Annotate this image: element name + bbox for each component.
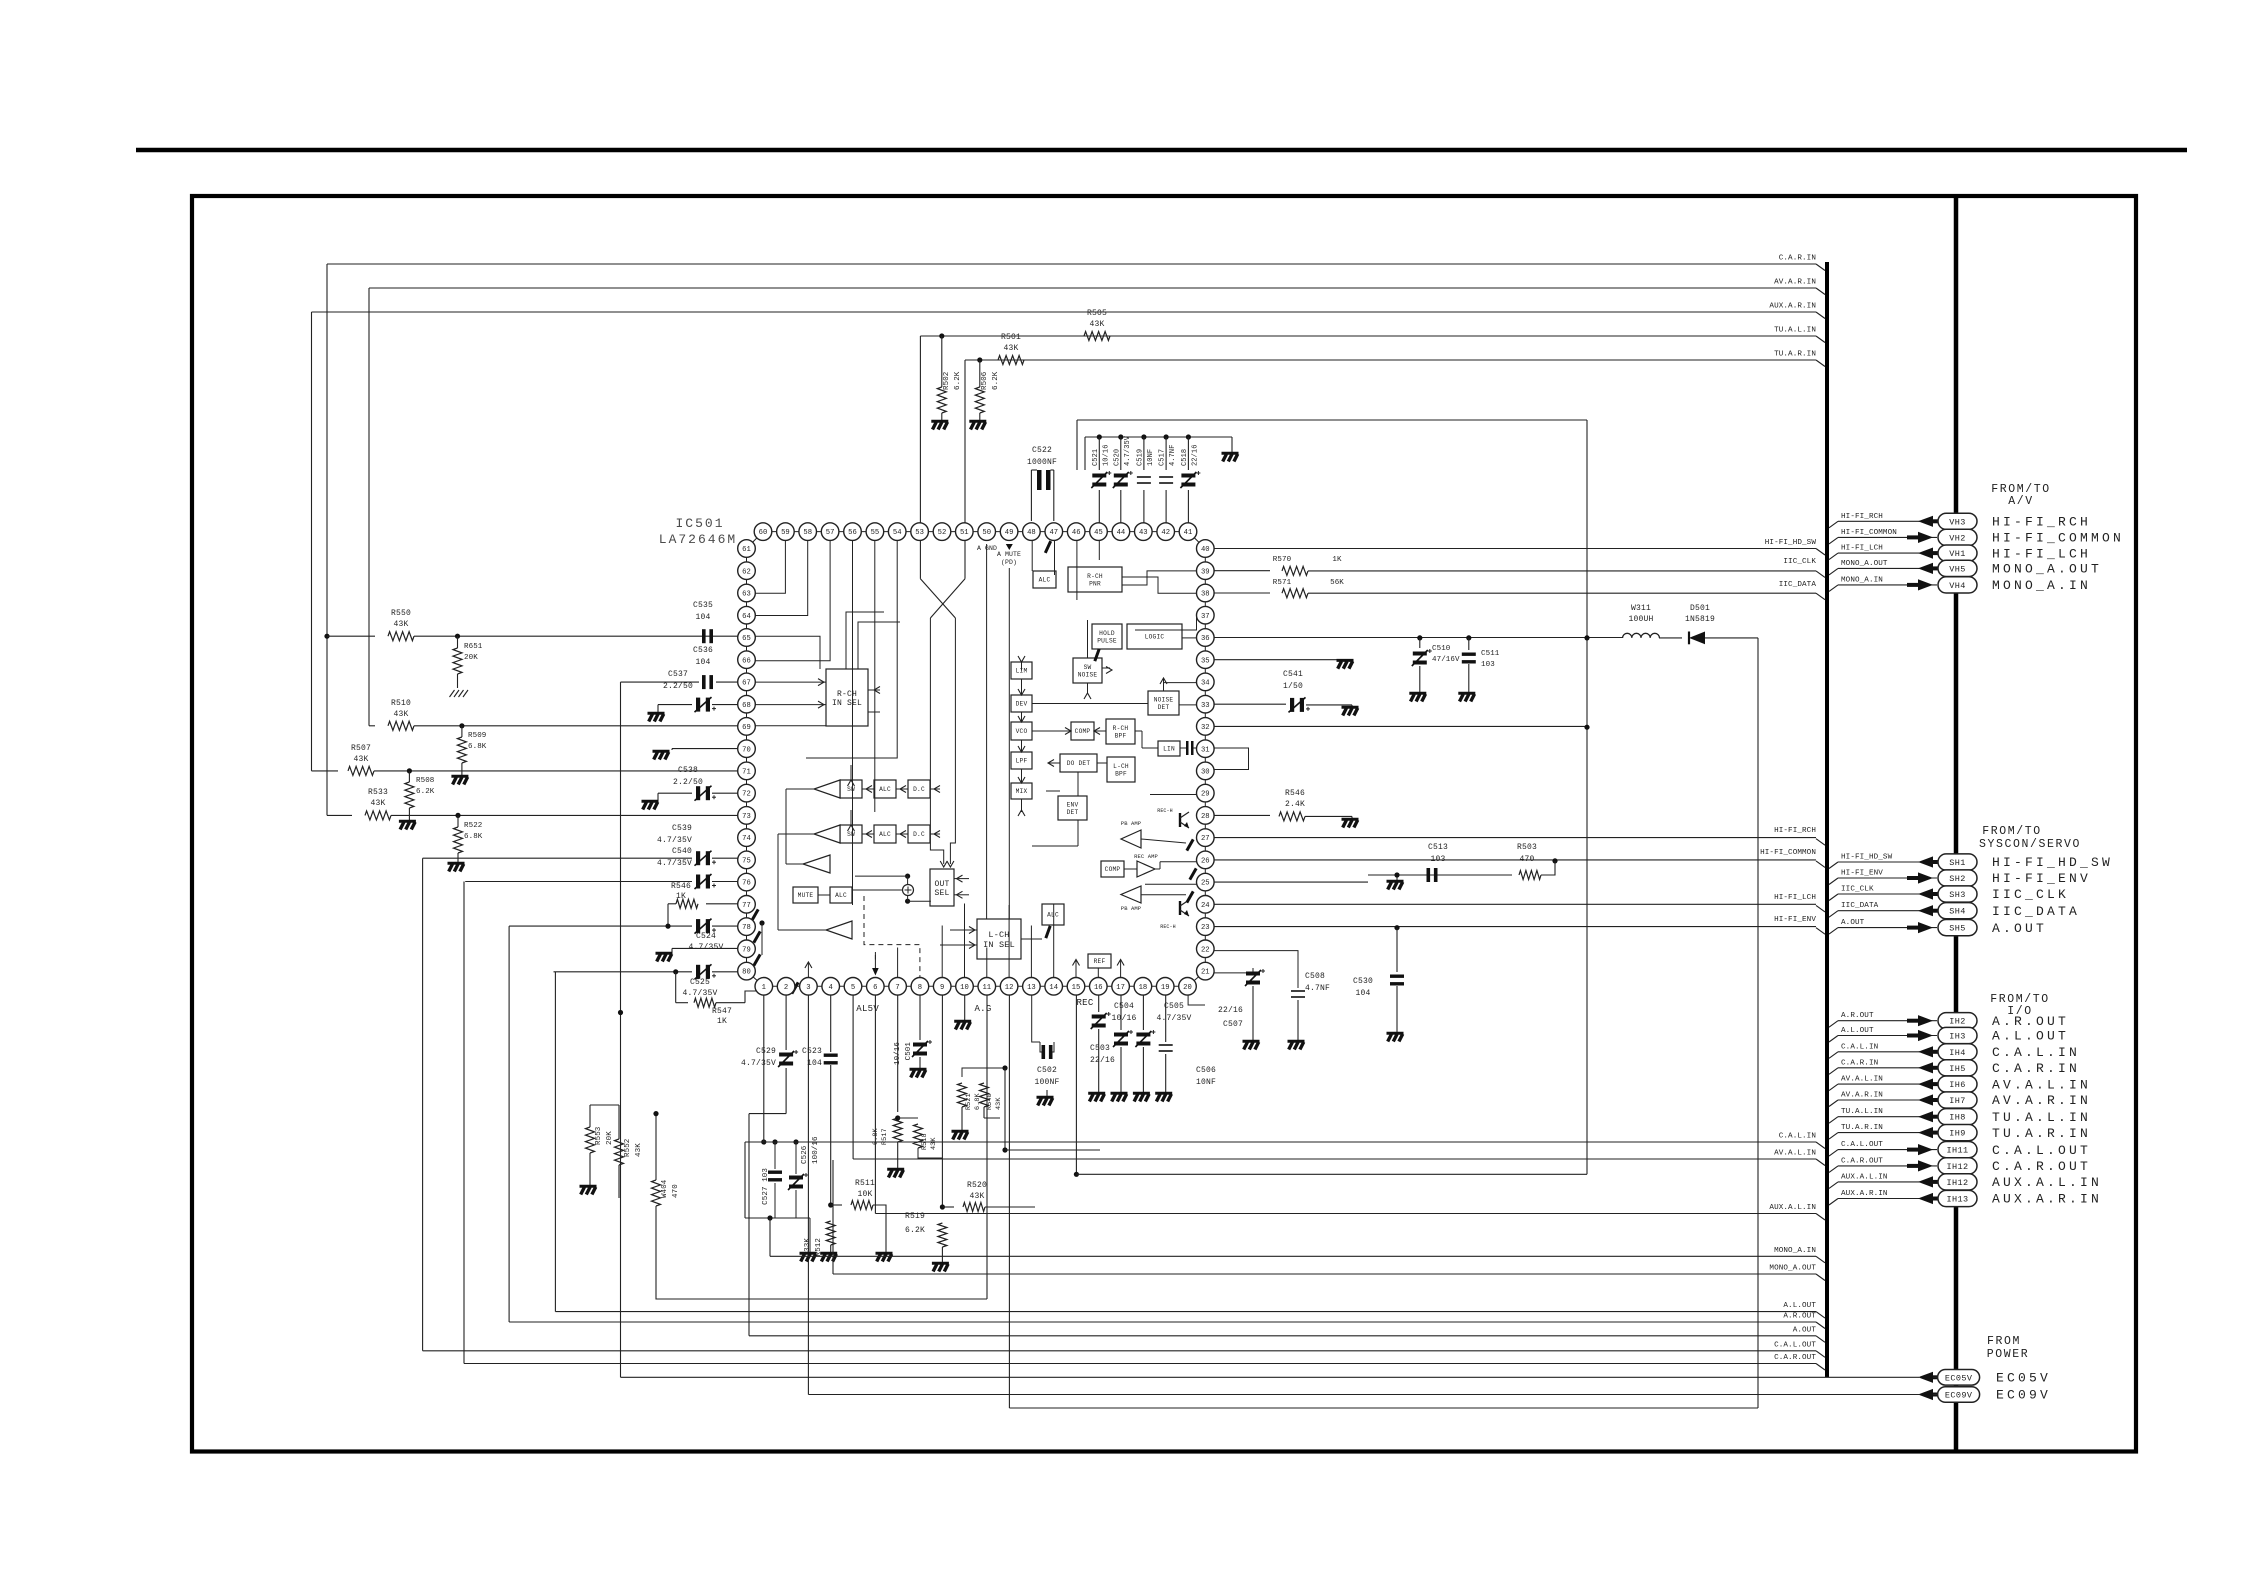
svg-text:20K: 20K xyxy=(464,654,478,662)
svg-text:2.2/50: 2.2/50 xyxy=(663,682,693,691)
svg-text:SYSCON/SERVO: SYSCON/SERVO xyxy=(1979,838,2081,851)
svg-text:R570: R570 xyxy=(1273,556,1292,564)
svg-text:C.A.R.IN: C.A.R.IN xyxy=(1779,255,1816,263)
svg-text:4.7/35V: 4.7/35V xyxy=(688,943,723,952)
svg-text:C.A.R.OUT: C.A.R.OUT xyxy=(1841,1157,1883,1165)
svg-text:44: 44 xyxy=(1117,529,1126,537)
svg-text:6.2K: 6.2K xyxy=(954,371,962,390)
svg-text:C507: C507 xyxy=(1223,1020,1243,1029)
svg-text:49: 49 xyxy=(1005,529,1014,537)
svg-text:R-CH: R-CH xyxy=(1087,573,1103,580)
svg-text:28: 28 xyxy=(1201,813,1210,821)
svg-text:C510: C510 xyxy=(1432,645,1451,653)
svg-text:30: 30 xyxy=(1201,769,1210,777)
svg-text:REF: REF xyxy=(1094,958,1106,965)
svg-text:MONO_A.IN: MONO_A.IN xyxy=(1841,576,1883,584)
svg-text:IC501: IC501 xyxy=(675,516,724,531)
svg-text:22/16: 22/16 xyxy=(1218,1006,1243,1015)
svg-text:13: 13 xyxy=(1027,984,1036,992)
svg-text:22/16: 22/16 xyxy=(1191,444,1199,466)
svg-text:VH2: VH2 xyxy=(1949,533,1966,543)
svg-text:2.4K: 2.4K xyxy=(1285,800,1305,809)
svg-text:A MUTE: A MUTE xyxy=(997,551,1021,558)
svg-text:R522: R522 xyxy=(464,822,482,830)
svg-text:R552: R552 xyxy=(624,1139,632,1157)
svg-text:37: 37 xyxy=(1201,613,1210,621)
svg-text:R651: R651 xyxy=(464,643,483,651)
svg-text:C502: C502 xyxy=(1037,1066,1057,1075)
svg-text:R509: R509 xyxy=(468,732,486,740)
svg-text:43K: 43K xyxy=(635,1143,643,1157)
svg-text:HI-FI_LCH: HI-FI_LCH xyxy=(1841,545,1883,553)
svg-text:A.L.OUT: A.L.OUT xyxy=(1992,1029,2069,1044)
svg-text:40: 40 xyxy=(1201,546,1210,554)
svg-text:57: 57 xyxy=(826,529,835,537)
svg-text:TU.A.R.IN: TU.A.R.IN xyxy=(1992,1126,2091,1141)
svg-text:TU.A.L.IN: TU.A.L.IN xyxy=(1774,327,1816,335)
svg-text:REC AMP: REC AMP xyxy=(1134,853,1158,860)
svg-text:HI-FI_HD_SW: HI-FI_HD_SW xyxy=(1992,855,2113,870)
svg-text:79: 79 xyxy=(742,946,751,954)
svg-text:SH2: SH2 xyxy=(1949,874,1966,884)
svg-text:21: 21 xyxy=(1201,969,1210,977)
svg-text:42: 42 xyxy=(1161,529,1170,537)
svg-text:C504: C504 xyxy=(1114,1002,1134,1011)
svg-text:SW: SW xyxy=(847,786,855,793)
svg-text:4.7/35V: 4.7/35V xyxy=(1124,435,1132,466)
svg-text:6.8K: 6.8K xyxy=(464,833,483,841)
svg-text:10NF: 10NF xyxy=(1196,1078,1216,1087)
svg-text:SW: SW xyxy=(1084,664,1092,671)
svg-text:6.2K: 6.2K xyxy=(905,1226,925,1235)
svg-text:104: 104 xyxy=(695,658,710,667)
svg-text:C.A.L.IN: C.A.L.IN xyxy=(1992,1045,2080,1060)
svg-text:R-CH: R-CH xyxy=(837,690,857,699)
svg-text:7: 7 xyxy=(895,984,899,992)
svg-text:BPF: BPF xyxy=(1115,770,1127,777)
svg-text:C521: C521 xyxy=(1092,449,1100,466)
svg-text:24: 24 xyxy=(1201,902,1210,910)
svg-text:61: 61 xyxy=(742,546,751,554)
svg-text:20K: 20K xyxy=(606,1131,614,1145)
svg-text:R533: R533 xyxy=(368,788,388,797)
svg-text:C536: C536 xyxy=(693,646,713,655)
svg-text:9: 9 xyxy=(940,984,944,992)
svg-text:EC05V: EC05V xyxy=(1996,1371,2051,1386)
svg-text:45: 45 xyxy=(1094,529,1103,537)
svg-text:C538: C538 xyxy=(678,766,698,775)
svg-text:IIC_DATA: IIC_DATA xyxy=(1992,904,2080,919)
svg-text:IN SEL: IN SEL xyxy=(832,699,862,708)
svg-text:C539: C539 xyxy=(672,824,692,833)
svg-text:25: 25 xyxy=(1201,880,1210,888)
svg-text:PB AMP: PB AMP xyxy=(1121,905,1141,912)
svg-text:FROM/TO: FROM/TO xyxy=(1982,825,2042,838)
svg-text:74: 74 xyxy=(742,835,751,843)
svg-text:IH5: IH5 xyxy=(1949,1064,1966,1074)
svg-text:470: 470 xyxy=(1519,855,1534,864)
svg-text:54: 54 xyxy=(893,529,902,537)
svg-text:52: 52 xyxy=(938,529,947,537)
svg-text:43: 43 xyxy=(1139,529,1148,537)
svg-text:MONO_A.IN: MONO_A.IN xyxy=(1774,1247,1816,1255)
svg-text:70: 70 xyxy=(742,746,751,754)
svg-text:4.7/35V: 4.7/35V xyxy=(682,989,717,998)
svg-text:43K: 43K xyxy=(393,710,408,719)
svg-text:33K: 33K xyxy=(804,1238,812,1252)
svg-text:39: 39 xyxy=(1201,568,1210,576)
svg-text:27: 27 xyxy=(1201,835,1210,843)
svg-text:AV.A.L.IN: AV.A.L.IN xyxy=(1992,1077,2091,1092)
svg-text:REC: REC xyxy=(1076,998,1093,1008)
svg-text:2: 2 xyxy=(784,984,788,992)
svg-text:VH3: VH3 xyxy=(1949,517,1966,527)
svg-text:HI-FI_LCH: HI-FI_LCH xyxy=(1774,894,1816,902)
svg-text:C535: C535 xyxy=(693,601,713,610)
svg-text:VH4: VH4 xyxy=(1949,581,1966,591)
svg-text:A.R.OUT: A.R.OUT xyxy=(1783,1313,1816,1321)
svg-text:C.A.R.IN: C.A.R.IN xyxy=(1841,1059,1878,1067)
svg-text:D.C: D.C xyxy=(913,831,925,838)
svg-text:DET: DET xyxy=(1158,704,1170,711)
svg-text:MONO_A.OUT: MONO_A.OUT xyxy=(1992,562,2102,577)
svg-text:C523: C523 xyxy=(802,1047,822,1056)
svg-text:43K: 43K xyxy=(393,620,408,629)
svg-text:AUX.A.L.IN: AUX.A.L.IN xyxy=(1841,1173,1888,1181)
svg-text:22: 22 xyxy=(1201,946,1210,954)
svg-text:MONO_A.IN: MONO_A.IN xyxy=(1992,578,2091,593)
svg-text:103: 103 xyxy=(1430,855,1445,864)
svg-text:IH7: IH7 xyxy=(1949,1096,1966,1106)
svg-text:R520: R520 xyxy=(967,1181,987,1190)
svg-text:77: 77 xyxy=(742,902,751,910)
svg-text:R553: R553 xyxy=(595,1126,603,1145)
svg-text:IH6: IH6 xyxy=(1949,1080,1966,1090)
svg-text:100NF: 100NF xyxy=(1034,1078,1059,1087)
svg-text:LIN: LIN xyxy=(1163,746,1175,753)
svg-text:C522: C522 xyxy=(1032,446,1052,455)
svg-text:R546: R546 xyxy=(1285,789,1305,798)
svg-text:100/16: 100/16 xyxy=(812,1136,820,1164)
svg-text:R550: R550 xyxy=(391,609,411,618)
svg-text:HI-FI_RCH: HI-FI_RCH xyxy=(1992,515,2091,530)
svg-text:R547: R547 xyxy=(712,1007,732,1016)
svg-text:C524: C524 xyxy=(696,932,716,941)
svg-text:EC09V: EC09V xyxy=(1945,1391,1973,1401)
svg-text:75: 75 xyxy=(742,858,751,866)
svg-text:A.R.OUT: A.R.OUT xyxy=(1841,1012,1874,1020)
svg-text:104: 104 xyxy=(1355,989,1370,998)
svg-text:48: 48 xyxy=(1027,529,1036,537)
svg-text:REC-H: REC-H xyxy=(1157,808,1173,814)
svg-text:AUX.A.R.IN: AUX.A.R.IN xyxy=(1992,1192,2102,1207)
svg-text:SW: SW xyxy=(847,831,855,838)
svg-text:A.OUT: A.OUT xyxy=(1992,921,2047,936)
svg-text:SH1: SH1 xyxy=(1949,858,1966,868)
svg-text:AV.A.L.IN: AV.A.L.IN xyxy=(1841,1076,1883,1084)
svg-text:IIC_CLK: IIC_CLK xyxy=(1841,886,1874,894)
svg-text:IH11: IH11 xyxy=(1946,1146,1968,1156)
svg-text:MONO_A.OUT: MONO_A.OUT xyxy=(1769,1265,1816,1273)
svg-text:4.7NF: 4.7NF xyxy=(1305,984,1330,993)
svg-text:43K: 43K xyxy=(969,1192,984,1201)
svg-text:R502: R502 xyxy=(943,372,951,390)
svg-text:AV.A.R.IN: AV.A.R.IN xyxy=(1992,1093,2091,1108)
svg-text:MUTE: MUTE xyxy=(798,892,814,899)
svg-text:66: 66 xyxy=(742,657,751,665)
svg-text:LOGIC: LOGIC xyxy=(1145,634,1165,641)
svg-text:NOISE: NOISE xyxy=(1078,671,1098,678)
svg-text:IH12: IH12 xyxy=(1946,1162,1968,1172)
svg-text:C501: C501 xyxy=(905,1042,913,1061)
svg-text:C530: C530 xyxy=(1353,977,1373,986)
svg-text:C505: C505 xyxy=(1164,1002,1184,1011)
svg-text:67: 67 xyxy=(742,680,751,688)
svg-text:A.OUT: A.OUT xyxy=(1841,919,1865,927)
svg-text:31: 31 xyxy=(1201,746,1210,754)
svg-text:50: 50 xyxy=(982,529,991,537)
svg-text:65: 65 xyxy=(742,635,751,643)
svg-text:2.2/50: 2.2/50 xyxy=(673,778,703,787)
svg-text:104: 104 xyxy=(807,1059,822,1068)
svg-text:IIC_CLK: IIC_CLK xyxy=(1992,887,2069,902)
svg-text:C503: C503 xyxy=(1090,1044,1110,1053)
svg-text:43K: 43K xyxy=(370,799,385,808)
svg-text:78: 78 xyxy=(742,924,751,932)
svg-text:SH4: SH4 xyxy=(1949,907,1966,917)
svg-text:47/16V: 47/16V xyxy=(1432,656,1460,664)
svg-text:C518: C518 xyxy=(1181,449,1189,466)
svg-text:SH5: SH5 xyxy=(1949,924,1966,934)
svg-text:REC-H: REC-H xyxy=(1160,924,1176,930)
svg-text:D501: D501 xyxy=(1690,604,1710,613)
svg-text:EC05V: EC05V xyxy=(1945,1373,1973,1383)
svg-text:R505: R505 xyxy=(1087,309,1107,318)
svg-text:46: 46 xyxy=(1072,529,1081,537)
svg-text:MONO_A.OUT: MONO_A.OUT xyxy=(1841,560,1888,568)
svg-text:4.7/35V: 4.7/35V xyxy=(657,859,692,868)
svg-text:73: 73 xyxy=(742,813,751,821)
svg-text:C517: C517 xyxy=(1159,449,1167,466)
svg-text:C537: C537 xyxy=(668,670,688,679)
svg-text:PNR: PNR xyxy=(1089,580,1101,587)
svg-text:IH13: IH13 xyxy=(1946,1195,1968,1205)
svg-text:10/16: 10/16 xyxy=(1102,444,1110,466)
svg-text:51: 51 xyxy=(960,529,969,537)
svg-text:C525: C525 xyxy=(690,978,710,987)
svg-text:4.7/35V: 4.7/35V xyxy=(1156,1014,1191,1023)
svg-text:HI-FI_ENV: HI-FI_ENV xyxy=(1841,870,1883,878)
svg-text:1N5819: 1N5819 xyxy=(1685,615,1715,624)
svg-text:HI-FI_LCH: HI-FI_LCH xyxy=(1992,546,2091,561)
svg-text:10: 10 xyxy=(960,984,969,992)
svg-text:AUX.A.L.IN: AUX.A.L.IN xyxy=(1992,1175,2102,1190)
svg-text:69: 69 xyxy=(742,724,751,732)
svg-text:1000NF: 1000NF xyxy=(1027,458,1057,467)
svg-text:PULSE: PULSE xyxy=(1097,637,1117,644)
svg-text:A.L.OUT: A.L.OUT xyxy=(1841,1027,1874,1035)
svg-text:IH3: IH3 xyxy=(1949,1032,1966,1042)
svg-text:C529: C529 xyxy=(756,1047,776,1056)
svg-text:55: 55 xyxy=(871,529,880,537)
svg-text:R506: R506 xyxy=(981,371,989,390)
svg-text:IH9: IH9 xyxy=(1949,1129,1966,1139)
svg-text:71: 71 xyxy=(742,769,751,777)
svg-text:IH4: IH4 xyxy=(1949,1048,1966,1058)
svg-text:100UH: 100UH xyxy=(1628,615,1653,624)
svg-text:R508: R508 xyxy=(416,777,434,785)
svg-text:TU.A.L.IN: TU.A.L.IN xyxy=(1841,1108,1883,1116)
svg-text:PB AMP: PB AMP xyxy=(1121,820,1141,827)
svg-text:OUT: OUT xyxy=(934,880,949,889)
svg-text:43K: 43K xyxy=(353,755,368,764)
svg-text:DO DET: DO DET xyxy=(1067,760,1091,767)
svg-text:8: 8 xyxy=(918,984,922,992)
svg-text:43K: 43K xyxy=(1089,320,1104,329)
svg-text:R510: R510 xyxy=(391,699,411,708)
svg-text:11: 11 xyxy=(982,984,991,992)
svg-text:ALC: ALC xyxy=(879,786,891,793)
svg-text:43K: 43K xyxy=(995,1097,1003,1110)
svg-text:HI-FI_RCH: HI-FI_RCH xyxy=(1841,513,1883,521)
svg-text:AUX.A.L.IN: AUX.A.L.IN xyxy=(1769,1204,1816,1212)
svg-text:DET: DET xyxy=(1067,809,1079,816)
svg-text:R571: R571 xyxy=(1273,579,1292,587)
svg-text:VH5: VH5 xyxy=(1949,564,1966,574)
svg-text:SEL: SEL xyxy=(934,889,949,898)
svg-text:1K: 1K xyxy=(676,892,686,901)
svg-text:C.A.L.IN: C.A.L.IN xyxy=(1779,1133,1816,1141)
svg-text:IH8: IH8 xyxy=(1949,1113,1966,1123)
svg-text:BPF: BPF xyxy=(1115,732,1127,739)
svg-text:C526: C526 xyxy=(801,1145,809,1164)
svg-text:HI-FI_COMMON: HI-FI_COMMON xyxy=(1992,531,2124,546)
svg-text:4: 4 xyxy=(829,984,833,992)
svg-text:L-CH: L-CH xyxy=(1113,763,1129,770)
svg-text:IH2: IH2 xyxy=(1949,1017,1966,1027)
svg-text:DEV: DEV xyxy=(1016,701,1028,708)
svg-text:43K: 43K xyxy=(930,1137,938,1150)
svg-text:5: 5 xyxy=(851,984,855,992)
svg-text:47: 47 xyxy=(1049,529,1058,537)
svg-text:6.2K: 6.2K xyxy=(416,788,435,796)
svg-text:59: 59 xyxy=(781,529,790,537)
svg-text:HI-FI_HD_SW: HI-FI_HD_SW xyxy=(1841,854,1893,862)
svg-text:TU.A.R.IN: TU.A.R.IN xyxy=(1774,351,1816,359)
svg-text:R546: R546 xyxy=(671,882,691,891)
svg-text:103: 103 xyxy=(1481,661,1495,669)
svg-text:68: 68 xyxy=(742,702,751,710)
svg-text:AV.A.L.IN: AV.A.L.IN xyxy=(1774,1150,1816,1158)
svg-text:19: 19 xyxy=(1161,984,1170,992)
svg-text:56K: 56K xyxy=(1330,579,1344,587)
svg-text:LPF: LPF xyxy=(1016,758,1028,765)
svg-text:16: 16 xyxy=(1094,984,1103,992)
svg-text:C.A.L.OUT: C.A.L.OUT xyxy=(1992,1143,2091,1158)
svg-text:ENV: ENV xyxy=(1067,802,1079,809)
svg-text:MIX: MIX xyxy=(1016,788,1028,795)
svg-text:C.A.L.IN: C.A.L.IN xyxy=(1841,1043,1878,1051)
svg-text:6.8K: 6.8K xyxy=(468,743,487,751)
svg-text:R511: R511 xyxy=(855,1179,875,1188)
svg-text:HI-FI_ENV: HI-FI_ENV xyxy=(1992,871,2091,886)
svg-text:43K: 43K xyxy=(1003,344,1018,353)
svg-text:FROM: FROM xyxy=(1987,1335,2021,1348)
svg-text:C513: C513 xyxy=(1428,843,1448,852)
svg-text:R507: R507 xyxy=(351,744,371,753)
svg-text:63: 63 xyxy=(742,591,751,599)
svg-text:1: 1 xyxy=(762,984,766,992)
svg-text:80: 80 xyxy=(742,969,751,977)
svg-text:POWER: POWER xyxy=(1987,1348,2030,1361)
svg-text:C506: C506 xyxy=(1196,1066,1216,1075)
svg-text:4.7/35V: 4.7/35V xyxy=(657,836,692,845)
svg-text:COMP: COMP xyxy=(1105,866,1121,873)
svg-text:17: 17 xyxy=(1116,984,1125,992)
svg-text:C.A.R.IN: C.A.R.IN xyxy=(1992,1061,2080,1076)
svg-text:HI-FI_COMMON: HI-FI_COMMON xyxy=(1841,529,1897,537)
svg-text:C.A.L.OUT: C.A.L.OUT xyxy=(1841,1141,1883,1149)
svg-text:R503: R503 xyxy=(1517,843,1537,852)
svg-text:HI-FI_COMMON: HI-FI_COMMON xyxy=(1760,849,1816,857)
svg-text:A.L.OUT: A.L.OUT xyxy=(1783,1302,1816,1310)
svg-text:4.7NF: 4.7NF xyxy=(1169,444,1177,466)
svg-text:HI-FI_HD_SW: HI-FI_HD_SW xyxy=(1765,539,1817,547)
svg-text:60: 60 xyxy=(759,529,768,537)
svg-text:IIC_DATA: IIC_DATA xyxy=(1779,581,1817,589)
svg-text:104: 104 xyxy=(695,613,710,622)
svg-text:10NF: 10NF xyxy=(1147,449,1155,466)
svg-text:33: 33 xyxy=(1201,702,1210,710)
svg-text:IIC_DATA: IIC_DATA xyxy=(1841,902,1879,910)
svg-text:ALC: ALC xyxy=(835,892,847,899)
svg-text:IN SEL: IN SEL xyxy=(983,940,1015,950)
svg-text:R-CH: R-CH xyxy=(1113,725,1129,732)
svg-text:W311: W311 xyxy=(1631,604,1651,613)
svg-text:R501: R501 xyxy=(1001,333,1021,342)
svg-text:SH3: SH3 xyxy=(1949,890,1966,900)
svg-text:(PD): (PD) xyxy=(1001,559,1017,566)
svg-text:TU.A.R.IN: TU.A.R.IN xyxy=(1841,1124,1883,1132)
svg-text:76: 76 xyxy=(742,880,751,888)
svg-text:R521: R521 xyxy=(965,1093,973,1110)
svg-text:26: 26 xyxy=(1201,858,1210,866)
svg-text:10K: 10K xyxy=(857,1190,872,1199)
svg-text:ALC: ALC xyxy=(879,831,891,838)
svg-text:10/16: 10/16 xyxy=(894,1042,902,1065)
svg-text:56: 56 xyxy=(848,529,857,537)
svg-text:HOLD: HOLD xyxy=(1099,630,1115,637)
svg-text:1/50: 1/50 xyxy=(1283,682,1303,691)
svg-text:LA72646M: LA72646M xyxy=(659,532,737,547)
svg-text:AUX.A.R.IN: AUX.A.R.IN xyxy=(1769,303,1816,311)
svg-text:6.8K: 6.8K xyxy=(974,1092,982,1110)
svg-text:35: 35 xyxy=(1201,657,1210,665)
svg-text:3: 3 xyxy=(806,984,810,992)
svg-text:COMP: COMP xyxy=(1075,728,1091,735)
svg-text:VCO: VCO xyxy=(1016,728,1028,735)
svg-text:HI-FI_ENV: HI-FI_ENV xyxy=(1774,916,1816,924)
svg-text:C520: C520 xyxy=(1113,449,1121,466)
svg-text:15: 15 xyxy=(1072,984,1081,992)
svg-text:58: 58 xyxy=(803,529,812,537)
svg-text:L-CH: L-CH xyxy=(988,930,1009,940)
svg-text:10/16: 10/16 xyxy=(1111,1014,1136,1023)
svg-text:38: 38 xyxy=(1201,591,1210,599)
svg-text:C540: C540 xyxy=(672,847,692,856)
svg-text:AUX.A.R.IN: AUX.A.R.IN xyxy=(1841,1190,1888,1198)
svg-text:23: 23 xyxy=(1201,924,1210,932)
